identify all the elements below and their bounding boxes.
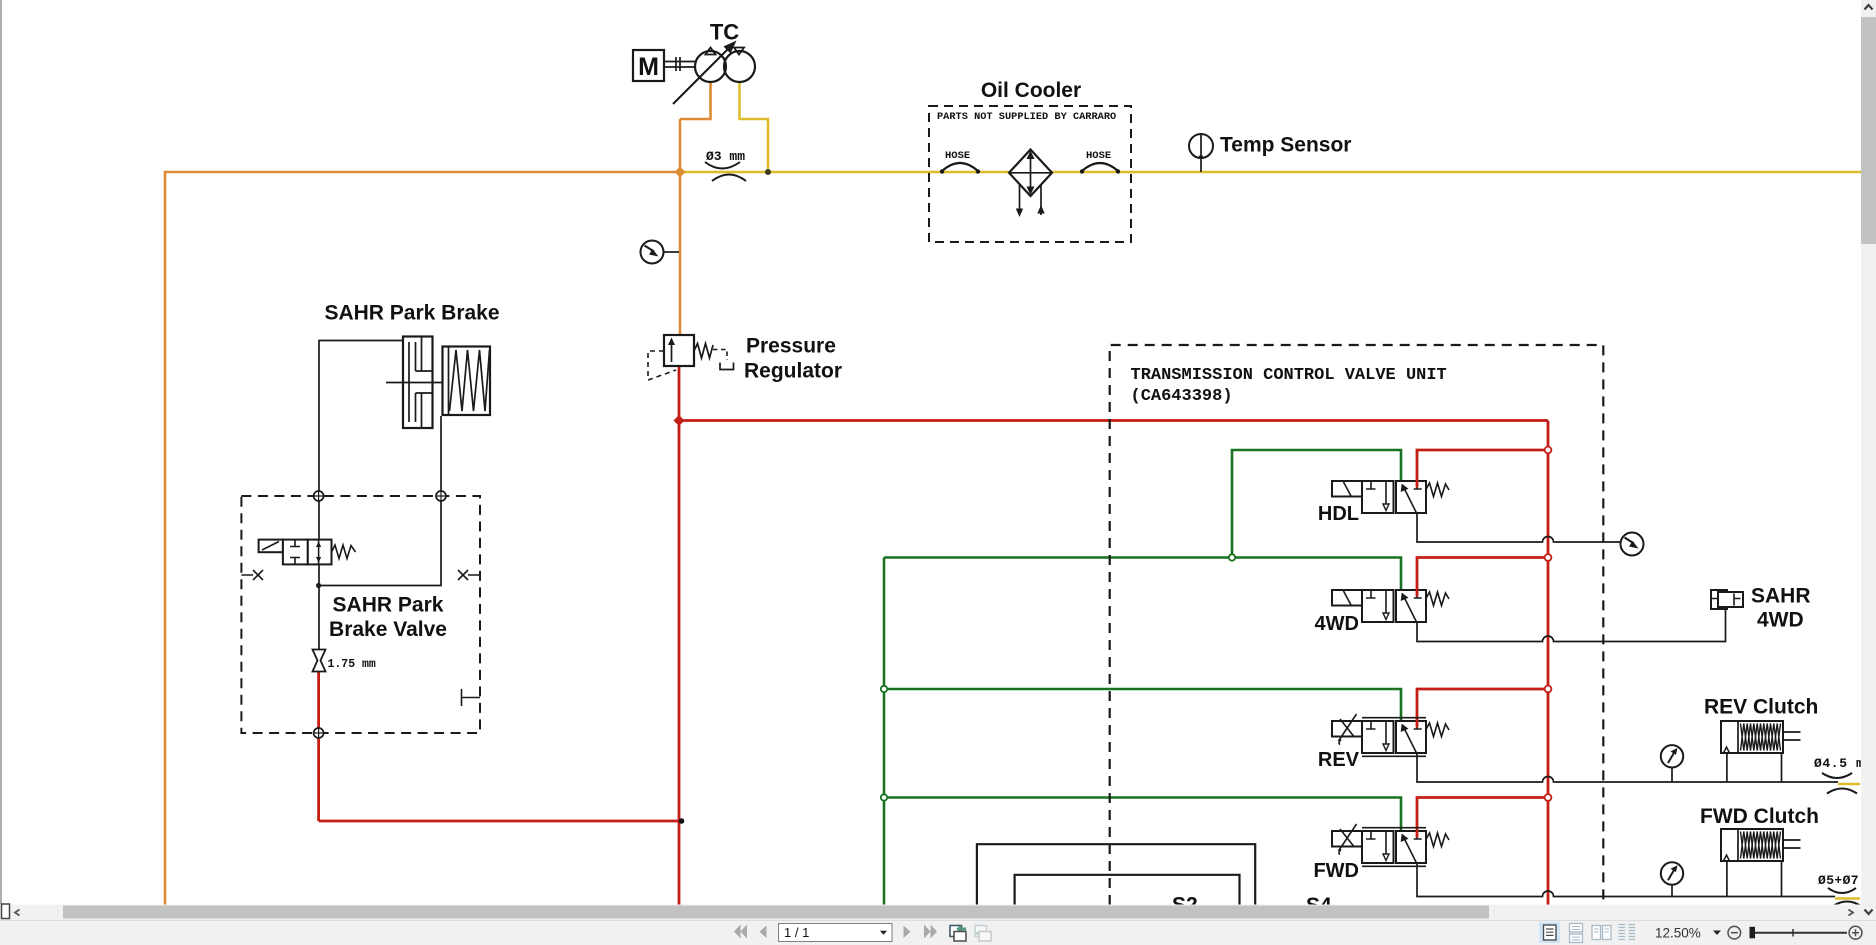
pump triangle marks <box>706 48 745 55</box>
actuator spring housing <box>443 347 491 416</box>
node: green junction ring at REV line <box>881 686 887 692</box>
solenoid valve 4WD <box>1332 589 1449 623</box>
svg-text:FWD: FWD <box>1313 860 1359 882</box>
svg-text:REV: REV <box>1318 749 1360 771</box>
wire: orange TC pump left outlet leg <box>165 83 711 905</box>
wire: green REV branch <box>884 689 1401 721</box>
wire: red feed 4WD valve <box>1417 558 1548 591</box>
solenoid valve HDL <box>1332 480 1449 514</box>
toolbar first page button <box>734 925 937 939</box>
toolbar single page layout button (selected) <box>1539 922 1560 943</box>
wire: FWD clutch legs <box>1727 861 1782 897</box>
toolbar zoom in button <box>1849 926 1862 939</box>
regulator pilot dashes right and drain <box>713 350 727 361</box>
svg-text:(CA643398): (CA643398) <box>1131 387 1233 406</box>
SAHR park brake actuator <box>386 337 490 429</box>
toolbar last page button <box>924 925 931 939</box>
wire: orange feed down to pressure regulator <box>679 119 682 335</box>
black wires group <box>319 57 1838 897</box>
toolbar prev page button <box>760 926 767 939</box>
wire: REV valve drain line to clutch and orifice <box>1417 753 1838 782</box>
horizontal scrollbar track <box>0 905 1861 921</box>
valve through path with arrows <box>318 540 320 565</box>
toolbar zoom slider <box>1750 927 1756 939</box>
wire: FWD gauge stem <box>1671 885 1673 897</box>
svg-text:SAHR Park: SAHR Park <box>333 594 444 617</box>
svg-text:TRANSMISSION CONTROL VALVE UNI: TRANSMISSION CONTROL VALVE UNIT <box>1131 366 1447 385</box>
wire: SAHR park brake right wire <box>319 416 441 586</box>
wire: motor shaft lines <box>664 57 695 71</box>
node: red junction ring 4WD <box>1545 554 1552 561</box>
wire: orange main return line left and down left edge <box>165 172 680 905</box>
toolbar next page button <box>904 926 911 939</box>
wire: red feed REV valve <box>1417 689 1548 721</box>
vertical scrollbar up arrow <box>1865 5 1873 10</box>
pressure gauge at TC line <box>641 241 664 264</box>
svg-text:HOSE: HOSE <box>1086 150 1111 162</box>
svg-text:HOSE: HOSE <box>945 150 970 162</box>
orifice 1.75 mm hourglass <box>313 650 326 672</box>
wire: 4WD valve drain to SAHR 4WD actuator <box>1417 609 1726 642</box>
svg-text:TC: TC <box>710 20 739 45</box>
vertical scrollbar down arrow <box>1865 910 1873 915</box>
wire: gauge stub to orange line <box>664 251 680 253</box>
SAHR 4WD actuator symbol <box>1711 590 1743 609</box>
orifice at REV clutch line <box>1822 773 1857 794</box>
node: red junction ring HDL <box>1545 447 1552 454</box>
SAHR park brake valve dashed box <box>241 496 480 733</box>
wire: red bottom horizontal SAHR to regulator line <box>319 820 679 823</box>
actuator spring <box>450 350 490 411</box>
wire: yellow REV clutch orifice segment <box>1838 783 1860 786</box>
svg-text:FWD Clutch: FWD Clutch <box>1700 805 1819 828</box>
pressure gauge REV <box>1661 745 1683 767</box>
orifice at FWD clutch line <box>1828 888 1861 906</box>
node: junction dot below valve <box>316 583 321 588</box>
hose arc left <box>942 163 1118 171</box>
orifice arcs on yellow line <box>705 162 746 181</box>
node: black dot at red bottom corner <box>679 818 685 824</box>
pressure regulator valve U-PR <box>648 335 734 380</box>
node: red junction ring REV <box>1545 686 1552 693</box>
wire: yellow FWD clutch orifice segment <box>1835 897 1860 900</box>
node: red junction diamond at regulator <box>674 415 685 426</box>
vertical scrollbar track <box>1861 0 1876 920</box>
node: green junction ring at FWD line <box>881 794 887 800</box>
node: dark junction dot yellow leg <box>765 169 771 175</box>
TCVU dashed enclosure <box>1110 345 1604 905</box>
port circle bottom <box>314 728 324 738</box>
wire: SAHR park brake left wire <box>319 341 403 650</box>
valve spring <box>332 545 356 559</box>
toolbar previous view icon <box>950 925 966 941</box>
wire: green main vertical <box>883 558 886 906</box>
toolbar page number combo <box>779 924 893 942</box>
svg-text:12.50%: 12.50% <box>1655 926 1701 941</box>
cooler air flow arrows <box>1020 185 1042 215</box>
node: green junction ring at 4WD line <box>1229 554 1235 560</box>
FWD clutch <box>1721 829 1801 861</box>
temp sensor symbol <box>1189 134 1213 158</box>
hose arc right <box>1082 163 1118 171</box>
wire: green HDL branch <box>884 450 1401 905</box>
svg-text:PARTS NOT SUPPLIED BY CARRARO: PARTS NOT SUPPLIED BY CARRARO <box>937 111 1116 123</box>
motor M box <box>633 50 664 81</box>
wire: red feed HDL valve <box>1417 450 1548 481</box>
svg-text:Ø5+Ø7: Ø5+Ø7 <box>1818 873 1859 888</box>
regulator pilot dashes left <box>648 351 676 380</box>
svg-text:1.75 mm: 1.75 mm <box>328 658 376 671</box>
svg-text:4WD: 4WD <box>1757 609 1804 632</box>
wire: red regulator output down to bottom <box>319 366 1548 905</box>
svg-text:SAHR: SAHR <box>1751 585 1811 608</box>
svg-text:SAHR Park Brake: SAHR Park Brake <box>324 302 499 325</box>
svg-text:Ø4.5 m: Ø4.5 m <box>1814 756 1864 771</box>
viewer left panel edge <box>0 0 2 904</box>
wire: FWD valve drain line to clutch and orifice <box>1417 863 1835 897</box>
node: orange junction diamond at TC line <box>675 167 686 178</box>
solenoid valve FWD <box>1332 824 1449 866</box>
toolbar background <box>0 920 1876 945</box>
S2 sensor box inner <box>1015 875 1240 906</box>
wire: HDL valve drain to gauge with jump over red <box>1417 513 1621 542</box>
toolbar zoom out button <box>1728 926 1741 939</box>
port circle top right <box>436 491 446 501</box>
svg-text:4WD: 4WD <box>1315 613 1359 635</box>
wire: REV clutch legs <box>1727 753 1782 782</box>
toolbar continuous layout button <box>1570 924 1583 943</box>
svg-text:HDL: HDL <box>1318 503 1359 525</box>
pump variable displacement arrow <box>673 46 731 104</box>
REV clutch <box>1721 721 1801 753</box>
toolbar facing continuous layout button <box>1619 925 1636 940</box>
svg-text:M: M <box>638 53 659 81</box>
wire: red main pressure line to TCVU <box>679 419 1548 422</box>
svg-text:Oil Cooler: Oil Cooler <box>981 79 1081 102</box>
toolbar facing layout button <box>1592 926 1611 940</box>
node: red junction ring FWD <box>1545 794 1552 801</box>
torque converter pump circles <box>673 41 755 105</box>
svg-text:1 / 1: 1 / 1 <box>784 925 809 940</box>
pressure gauge HDL line <box>1621 533 1644 556</box>
wire: green FWD branch <box>884 798 1401 832</box>
pressure gauge FWD <box>1661 862 1683 884</box>
regulator spring <box>694 344 713 359</box>
wire: green 4WD branch <box>884 558 1401 591</box>
plugged port left <box>241 570 263 580</box>
oil cooler dashed box <box>929 106 1131 242</box>
tank stub bottom right <box>462 689 481 706</box>
svg-text:Regulator: Regulator <box>744 360 842 383</box>
horizontal scrollbar right arrow <box>1849 910 1854 916</box>
S2 sensor box outer <box>977 844 1255 906</box>
wire: red feed FWD valve <box>1417 798 1548 832</box>
wire: red SAHR park brake supply <box>317 660 320 821</box>
wire: temp sensor stem <box>1200 134 1202 172</box>
actuator rod center line <box>386 382 443 384</box>
wire: yellow main line from TC junction to oil cooler and right edge <box>680 83 1861 899</box>
solenoid valve REV <box>1332 714 1449 756</box>
svg-text:Brake Valve: Brake Valve <box>329 618 447 641</box>
port circle top left <box>314 491 324 501</box>
valve blocked ports <box>290 540 300 564</box>
horizontal scrollbar left arrow <box>15 910 20 916</box>
horizontal scrollbar thumb <box>63 906 1489 919</box>
vertical scrollbar thumb <box>1861 17 1876 244</box>
wire: REV gauge stem <box>1671 768 1673 783</box>
SAHR park brake solenoid valve <box>259 540 356 565</box>
svg-text:Pressure: Pressure <box>746 335 836 358</box>
plugged port right <box>458 570 480 580</box>
svg-text:Temp Sensor: Temp Sensor <box>1220 134 1351 157</box>
wire: yellow TC pump right outlet leg <box>740 83 769 172</box>
toolbar next view icon (disabled) <box>975 926 991 942</box>
svg-text:REV Clutch: REV Clutch <box>1704 696 1818 719</box>
cooler diamond symbol <box>1009 150 1052 218</box>
wire: red main vertical in TCVU <box>1547 421 1550 906</box>
small page icon bottom left <box>2 904 10 919</box>
